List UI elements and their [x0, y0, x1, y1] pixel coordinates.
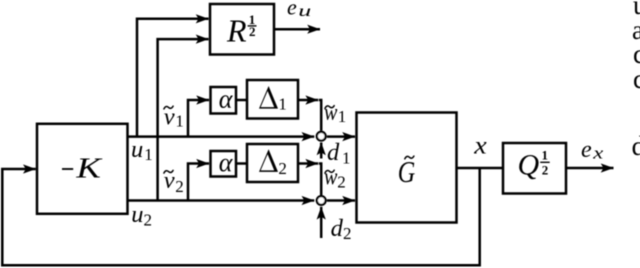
wire v2 tap to alpha2 — [188, 164, 209, 201]
svg-text:d: d — [327, 139, 340, 166]
wire d1 input — [320, 143, 323, 159]
svg-text:x: x — [473, 133, 487, 160]
wire alpha2 to Delta2 — [236, 162, 247, 165]
block R^1/2 — [210, 4, 274, 55]
wire u1 branch up to R input 1 — [137, 19, 209, 137]
svg-text:R: R — [226, 12, 247, 48]
block alpha 1 — [211, 87, 237, 114]
svg-text:d: d — [632, 131, 640, 161]
svg-text:u: u — [131, 201, 143, 228]
wire corner down into sum2 — [319, 164, 321, 196]
block Delta 2 — [247, 144, 298, 182]
svg-text:1: 1 — [542, 147, 549, 162]
wire d2 input — [320, 207, 323, 238]
wire R output e_u — [274, 28, 320, 31]
label Delta 2 (drawn glyph) — [259, 149, 278, 172]
block -K — [37, 124, 128, 214]
svg-text:K: K — [75, 154, 103, 185]
svg-text:w: w — [324, 100, 337, 126]
wire alpha1 to Delta1 — [236, 99, 247, 102]
wire v1 tap to alpha1 — [188, 100, 209, 137]
wire u1 from -K to sum junction 1 — [128, 135, 315, 138]
wire u2 branch up to R input 2 — [158, 39, 209, 200]
label Delta 1 (drawn glyph) — [259, 86, 278, 109]
svg-text:e: e — [287, 0, 297, 20]
svg-text:2: 2 — [144, 211, 153, 230]
block Q^1/2 — [503, 143, 566, 194]
wire sum junction 2 to G — [327, 199, 355, 202]
svg-text:x: x — [592, 143, 604, 162]
svg-text:α: α — [219, 148, 234, 177]
svg-text:2: 2 — [175, 177, 184, 196]
wire feedback from x down around to -K input — [2, 168, 479, 265]
svg-text:2: 2 — [343, 224, 352, 243]
block G tilde — [357, 113, 457, 223]
svg-text:1: 1 — [144, 145, 153, 164]
svg-text:2: 2 — [542, 162, 549, 177]
svg-text:e: e — [581, 137, 592, 163]
wire Delta2 output with arrow — [298, 162, 318, 165]
svg-text:G: G — [398, 154, 416, 189]
tilde of G — [405, 156, 414, 159]
svg-text:1: 1 — [175, 111, 184, 130]
wire Q output e_x — [566, 167, 614, 170]
svg-text:2: 2 — [337, 173, 346, 192]
sum junction 1 — [317, 132, 326, 141]
svg-text:d: d — [331, 215, 344, 242]
svg-text:2: 2 — [278, 159, 287, 178]
block alpha 2 — [211, 151, 237, 177]
sum junction 2 — [317, 196, 326, 205]
svg-text:c: c — [633, 64, 640, 94]
wire corner down into sum1 — [319, 100, 321, 131]
svg-text:α: α — [219, 85, 234, 114]
wire Delta1 output with arrow — [298, 99, 318, 102]
block Delta 1 — [247, 80, 298, 119]
svg-text:u: u — [298, 3, 311, 20]
svg-text:Q: Q — [518, 149, 540, 182]
svg-text:w: w — [324, 164, 337, 190]
svg-text:1: 1 — [342, 148, 351, 167]
wire u2 from -K to sum junction 2 — [128, 199, 315, 202]
svg-text:1: 1 — [338, 107, 347, 126]
wire sum junction 1 to G — [327, 135, 355, 138]
svg-text:u: u — [131, 136, 143, 163]
svg-text:2: 2 — [249, 24, 256, 39]
label -K — [62, 168, 73, 170]
svg-text:1: 1 — [278, 95, 287, 114]
wire x output from G to Q — [457, 167, 504, 170]
